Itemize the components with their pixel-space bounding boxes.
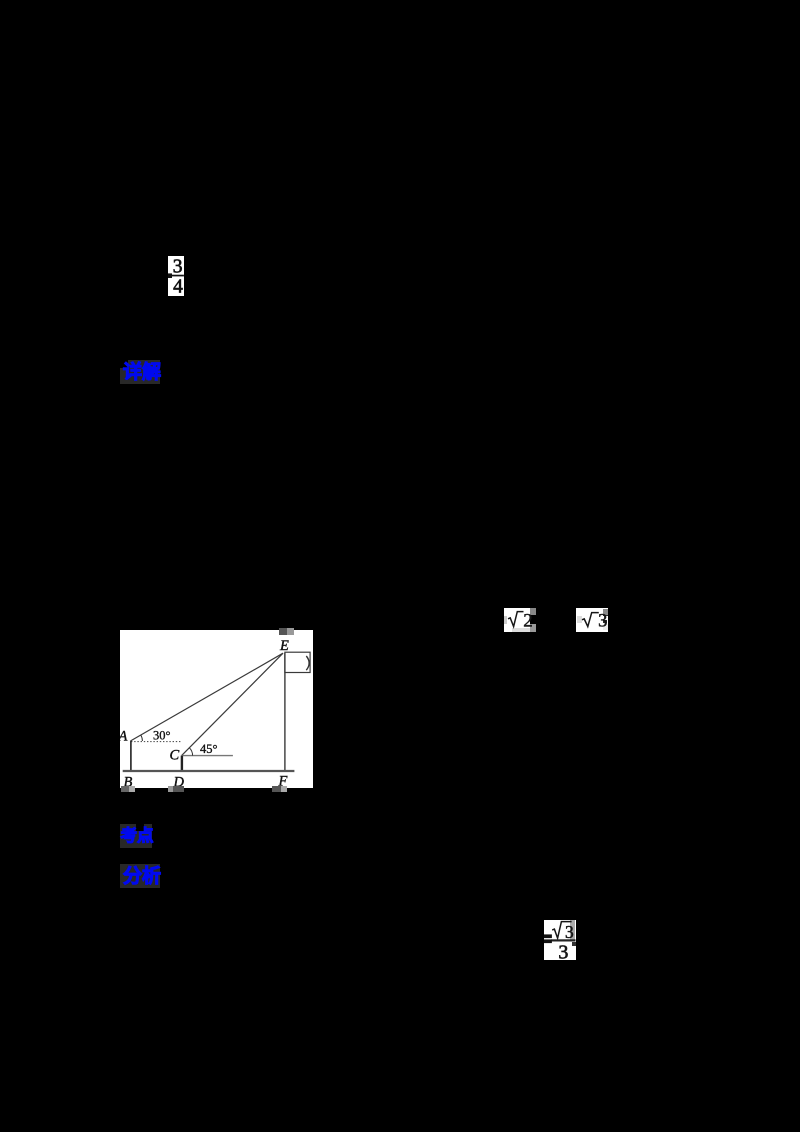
svg-text:E: E — [279, 638, 289, 654]
svg-text:45°: 45° — [200, 742, 218, 756]
svg-text:3: 3 — [558, 941, 568, 961]
svg-text:A: A — [120, 729, 128, 745]
svg-text:30°: 30° — [153, 729, 171, 743]
svg-text:4: 4 — [173, 276, 183, 297]
svg-text:C: C — [170, 748, 180, 764]
svg-text:3: 3 — [598, 612, 607, 632]
svg-text:2: 2 — [523, 611, 532, 632]
svg-text:3: 3 — [172, 257, 182, 278]
svg-text:3: 3 — [565, 922, 574, 942]
